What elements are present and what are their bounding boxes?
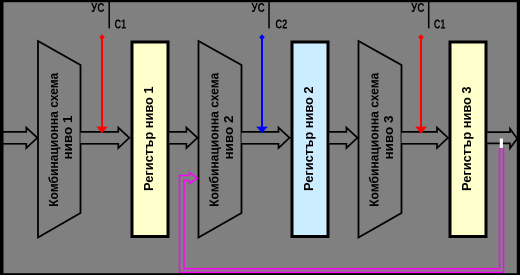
svg-text:Комбинационна схема: Комбинационна схема	[46, 72, 61, 207]
input bus arrow (hollow)	[2, 128, 37, 149]
register level 2	[292, 42, 328, 237]
separator line #3	[428, 0, 430, 28]
svg-text:УС: УС	[251, 0, 265, 15]
svg-text:С1: С1	[434, 16, 446, 31]
register level 3	[450, 42, 486, 237]
combinational circuit level 2 trapezoid	[199, 41, 242, 238]
svg-text:С2: С2	[275, 16, 287, 31]
svg-text:Комбинационна схема: Комбинационна схема	[207, 72, 222, 207]
svg-text:ниво 1: ниво 1	[60, 116, 75, 160]
svg-text:Регистър ниво 3: Регистър ниво 3	[459, 86, 474, 191]
clock signal C1 arrow (red, double-ended) #3	[415, 34, 427, 134]
separator line #2	[268, 0, 270, 28]
feedback bus (magenta) from register 3 output to level-2 logic: outer line	[180, 148, 504, 272]
svg-text:Регистър ниво 2: Регистър ниво 2	[301, 86, 316, 191]
svg-text:ниво 3: ниво 3	[381, 116, 396, 160]
output bus arrow	[487, 129, 517, 149]
separator line #1	[108, 0, 110, 28]
clock signal C1 arrow (red, double-ended)	[96, 34, 108, 133]
feedback bus (magenta): open arrowhead into level-2 logic	[190, 172, 198, 183]
svg-text:ниво 2: ниво 2	[221, 116, 236, 160]
bus arrow: register 1 to level-2 logic	[169, 128, 197, 149]
register level 1	[132, 42, 168, 237]
svg-text:УС: УС	[411, 0, 425, 15]
outer border frame	[0, 0, 4, 275]
svg-text:С1: С1	[115, 16, 127, 31]
white tap marker on register 3 output	[500, 139, 503, 148]
combinational circuit level 1 trapezoid	[38, 41, 81, 238]
feedback bus (magenta): inner line	[184, 148, 500, 269]
clock signal C2 arrow (blue, double-ended)	[256, 34, 268, 133]
svg-text:УС: УС	[91, 0, 105, 15]
svg-text:Комбинационна схема: Комбинационна схема	[367, 72, 382, 207]
bus arrow: level-2 logic to register 2	[242, 128, 290, 149]
bus arrow: register 2 to level-3 logic	[329, 128, 357, 149]
bus arrow: level-3 logic to register 3	[402, 128, 449, 149]
bus arrow: level-1 logic to register 1	[81, 128, 130, 149]
combinational circuit level 3 trapezoid	[359, 41, 402, 238]
svg-text:Регистър ниво 1: Регистър ниво 1	[141, 86, 156, 191]
